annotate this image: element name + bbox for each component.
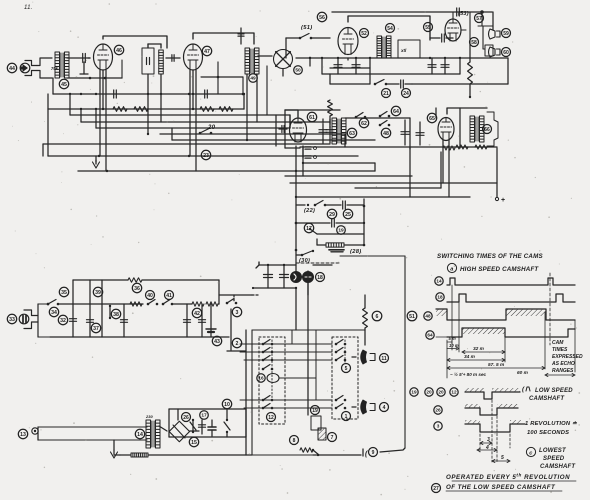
svg-text:26: 26 <box>435 408 441 413</box>
wire box top y256 <box>340 255 405 257</box>
resistor R11 <box>192 302 204 306</box>
node 18 waveform <box>436 293 444 301</box>
svg-text:42: 42 <box>194 311 200 317</box>
svg-text:61: 61 <box>309 115 315 121</box>
capacitor C1 <box>82 54 84 63</box>
wire stub x241 <box>240 28 242 44</box>
node 21 <box>382 89 391 98</box>
headphone jack 59 <box>489 29 496 39</box>
gap symbol <box>362 449 364 456</box>
svg-text:19: 19 <box>411 390 417 395</box>
svg-text:CAMSHAFT: CAMSHAFT <box>529 396 565 402</box>
wire row y304 <box>58 303 143 305</box>
svg-text:17: 17 <box>201 413 207 419</box>
resistor R12 <box>206 302 218 306</box>
node 12 <box>267 413 276 422</box>
node 13 <box>18 429 27 438</box>
transformer T45 <box>55 52 60 78</box>
wire y263 dotted <box>296 262 340 264</box>
node 23 <box>201 150 210 159</box>
waveform 18 <box>447 294 575 302</box>
wire right verticals strip1 <box>507 58 509 84</box>
capacitor C6 <box>400 80 402 88</box>
node 3 waveform <box>434 422 442 430</box>
dimension 10m <box>447 348 457 350</box>
svg-text:44: 44 <box>9 66 15 72</box>
wire box top y280 <box>73 279 128 281</box>
svg-text:34: 34 <box>51 310 57 316</box>
svg-text:39: 39 <box>95 290 101 296</box>
switch S51 <box>299 37 302 40</box>
wire box corner right <box>219 280 252 295</box>
node 64 <box>391 106 400 115</box>
wire lamps link <box>301 276 303 278</box>
svg-text:CAM: CAM <box>552 340 564 346</box>
svg-text:41: 41 <box>166 293 172 299</box>
wire long y144 <box>43 143 330 145</box>
wire V53 to jacks <box>469 12 471 44</box>
transformer T14 <box>146 420 151 448</box>
dimension 5m <box>447 341 452 343</box>
dim lines c <box>479 434 481 452</box>
wire strip1 stubs <box>285 38 287 58</box>
node 44 microphone input label <box>7 63 16 72</box>
svg-text:59: 59 <box>503 31 509 37</box>
svg-text:18: 18 <box>437 295 443 300</box>
svg-text:SWITCHING TIMES OF THE CAMS: SWITCHING TIMES OF THE CAMS <box>437 253 543 260</box>
wire y265 right <box>313 264 332 266</box>
wire bridge connections <box>159 426 167 431</box>
node 1 <box>342 412 351 421</box>
wire switch3 down <box>230 309 232 350</box>
capacitor C15 <box>87 319 94 321</box>
wire mains top <box>38 426 147 428</box>
switch S22 <box>314 204 317 207</box>
ground G2 <box>113 440 115 450</box>
svg-text:CAMSHAFT: CAMSHAFT <box>540 464 576 470</box>
capacitor C3 on y94 <box>204 90 206 98</box>
supply box top <box>169 408 246 410</box>
node 32 <box>58 315 67 324</box>
node 64 waveform <box>426 331 434 339</box>
wire V61 top <box>285 110 298 117</box>
node 65 <box>427 113 436 122</box>
battery B43 <box>210 304 212 337</box>
wire mains bottom <box>38 439 147 441</box>
node 11 <box>380 354 389 363</box>
waveform 26 <box>465 408 518 415</box>
node 50 <box>294 66 303 75</box>
wire top rail y12 <box>332 11 492 13</box>
svg-text:~ ½ 5ʹ+ 80 m sec: ~ ½ 5ʹ+ 80 m sec <box>450 371 487 377</box>
wire bottom to earpiece <box>38 336 50 338</box>
wire row y234 <box>310 229 317 234</box>
wire branch to relay box <box>227 350 246 352</box>
node 17 b <box>200 411 209 420</box>
node 3 <box>232 307 241 316</box>
svg-text:47: 47 <box>204 49 210 55</box>
svg-text:8: 8 <box>293 438 296 444</box>
waveform 64 <box>447 328 575 337</box>
wire mic to transformer T45 <box>37 58 52 66</box>
wire vertical x303 spine <box>302 146 304 176</box>
svg-text:11: 11 <box>381 356 387 362</box>
svg-text:LOW SPEED: LOW SPEED <box>535 388 573 394</box>
svg-text:3: 3 <box>236 310 239 316</box>
node 6 <box>372 311 382 321</box>
wire V47 plate to top rail right <box>193 33 254 44</box>
svg-text:38: 38 <box>113 312 119 318</box>
svg-text:21: 21 <box>383 91 389 97</box>
svg-text:63: 63 <box>349 131 355 137</box>
tube V47 <box>184 44 203 70</box>
switch S40 <box>147 303 150 306</box>
waveform a14 <box>447 278 575 285</box>
svg-text:50: 50 <box>295 68 301 74</box>
node 48 <box>381 128 390 137</box>
node 42 <box>192 308 201 317</box>
wire ladder steps <box>70 114 290 116</box>
wire V65 cathode drops <box>442 140 444 183</box>
wire bus y176 <box>285 175 412 177</box>
relay contacts right upper <box>335 343 338 346</box>
node 15 <box>189 437 198 446</box>
capacitor C7 pair <box>322 119 324 143</box>
relay box outline <box>252 329 365 331</box>
svg-text:34 m: 34 m <box>464 354 476 360</box>
resistor R10 <box>130 302 142 306</box>
capacitor C19 <box>201 420 203 434</box>
wire V46 cathodes down <box>99 70 101 156</box>
node 18 <box>316 273 325 282</box>
svg-text:EXPRESSED: EXPRESSED <box>552 354 583 360</box>
node 47 <box>202 46 211 55</box>
wire strip2 rails <box>285 109 340 111</box>
wire right block verticals <box>243 94 245 109</box>
capacitor C17 <box>186 304 188 337</box>
mic bracket <box>25 61 37 66</box>
capacitor C2 on y94 <box>113 90 115 98</box>
svg-text:62: 62 <box>361 121 367 127</box>
speaker box <box>487 112 498 146</box>
wire bus y183 <box>290 182 497 184</box>
electrolytic C20 <box>211 420 213 427</box>
svg-text:4: 4 <box>485 445 489 451</box>
node 19 row <box>410 388 418 396</box>
dimension 57.5m <box>447 367 545 369</box>
resistor R9 <box>128 278 142 282</box>
node 26 waveform <box>434 406 442 414</box>
wire V47 cathodes down <box>189 70 191 156</box>
svg-text:37: 37 <box>93 326 99 332</box>
capacitor C5 <box>441 34 443 42</box>
svg-text:20: 20 <box>207 125 216 131</box>
node 35 <box>59 287 68 296</box>
connector J13 <box>32 428 38 434</box>
switch S41 <box>162 303 165 306</box>
node 29 <box>327 209 336 218</box>
dimension 60m <box>545 374 575 376</box>
svg-text:26: 26 <box>183 415 189 421</box>
IF transformer can T2 <box>142 48 154 74</box>
relay armature dotted right <box>344 340 346 362</box>
wire misc mid <box>289 115 291 128</box>
node 10 <box>222 399 231 408</box>
node 49 <box>249 74 258 83</box>
node 24 <box>402 89 411 98</box>
underline <box>452 480 576 482</box>
svg-text:20: 20 <box>426 390 432 395</box>
wire cap bank bottom y288 <box>253 287 296 289</box>
resistor R8 <box>475 145 487 149</box>
switch S26 <box>192 420 194 432</box>
switch S34 <box>38 303 48 305</box>
node 46 <box>114 45 123 54</box>
svg-text:51: 51 <box>409 314 415 320</box>
output jack 11 <box>361 350 367 364</box>
node 25 <box>343 209 352 218</box>
node 33 <box>7 314 16 323</box>
dimension 32m <box>462 351 505 353</box>
svg-text:6: 6 <box>376 314 379 320</box>
transformer T54 <box>377 36 382 58</box>
earpiece connector 32 <box>19 314 29 324</box>
wire long y156 <box>48 155 358 157</box>
resistor bumps y148 <box>443 146 455 150</box>
wire box bottom right <box>313 454 361 456</box>
capacitor C10 <box>342 201 344 209</box>
wire rail right down <box>492 12 494 30</box>
svg-text:48: 48 <box>425 314 431 319</box>
wire matrix cross verticals <box>291 330 293 344</box>
capacitor C14 <box>70 318 77 320</box>
svg-text:5: 5 <box>501 455 504 461</box>
wire caps under rail <box>337 58 339 74</box>
svg-text:32 m: 32 m <box>473 346 485 352</box>
svg-text:65: 65 <box>429 116 435 122</box>
wire node46 drop <box>121 60 123 78</box>
microphone M1 <box>20 63 30 73</box>
waveform 64 lead <box>436 336 447 338</box>
node 20b row <box>437 388 445 396</box>
svg-text:43: 43 <box>214 339 220 345</box>
svg-text:54: 54 <box>387 26 393 32</box>
wire bus y197 <box>296 196 470 198</box>
node 16 <box>257 374 265 382</box>
svg-text:3: 3 <box>437 424 440 429</box>
node 9 <box>369 448 378 457</box>
svg-text:24: 24 <box>403 91 409 97</box>
svg-text:SPEED: SPEED <box>543 456 565 462</box>
node 40 <box>146 291 155 300</box>
resistor R7 <box>456 145 468 149</box>
svg-text:HIGH SPEED CAMSHAFT: HIGH SPEED CAMSHAFT <box>460 266 539 273</box>
wire cap bank top y265 <box>259 264 296 266</box>
node 45 <box>59 79 68 88</box>
wire T49 down <box>246 74 248 140</box>
node 51 waveform <box>407 311 417 321</box>
capacitor C12 <box>267 265 269 288</box>
svg-text:AS ECHO: AS ECHO <box>551 361 575 367</box>
svg-text:xtl: xtl <box>400 48 407 53</box>
svg-text:c: c <box>529 451 533 457</box>
svg-text:66: 66 <box>484 127 490 133</box>
right dashed relay box <box>332 337 358 419</box>
svg-text:18: 18 <box>317 275 323 281</box>
svg-text:1: 1 <box>345 414 348 420</box>
rotary switch S50 <box>274 50 293 69</box>
wire sub rails <box>330 67 370 69</box>
node 12 row <box>450 388 458 396</box>
svg-text:46: 46 <box>116 48 122 54</box>
node 57 <box>475 14 484 23</box>
switch S9 <box>313 450 319 455</box>
svg-text:(53): (53) <box>458 11 469 17</box>
node 61 <box>307 112 316 121</box>
wire T45 secondary to V46 grid <box>67 57 90 59</box>
node 56 <box>317 12 326 21</box>
node 2 <box>232 338 241 347</box>
svg-text:TIMES: TIMES <box>552 347 568 353</box>
wire outer box right <box>404 256 406 448</box>
resistor R13 <box>300 448 313 452</box>
capacitor C16 <box>123 304 125 337</box>
wire supply bottom <box>196 430 199 432</box>
node 48 waveform <box>424 312 432 320</box>
node c label <box>526 447 535 456</box>
waveform 48 <box>436 309 447 316</box>
node 34 <box>49 307 58 316</box>
svg-text:2: 2 <box>236 341 239 347</box>
transformer T66 <box>470 116 475 142</box>
svg-text:25: 25 <box>345 212 351 218</box>
node 17 <box>304 223 313 232</box>
svg-text:1 REVOLUTION ≐: 1 REVOLUTION ≐ <box>525 421 578 427</box>
wire control verticals <box>363 199 365 245</box>
node 4 <box>380 403 389 412</box>
node 63 <box>347 128 356 137</box>
svg-text:(28): (28) <box>350 249 362 255</box>
waveform b low speed <box>465 392 520 399</box>
svg-text:27: 27 <box>433 486 439 492</box>
node 55 <box>424 23 433 32</box>
reference verticals <box>451 285 453 350</box>
svg-text:(22): (22) <box>304 208 315 214</box>
wire vertical x296 spine <box>295 146 297 271</box>
svg-text:32: 32 <box>60 318 66 324</box>
svg-text:10: 10 <box>224 402 230 408</box>
left dashed relay box <box>259 337 285 424</box>
svg-text:33: 33 <box>9 317 15 323</box>
svg-text:20: 20 <box>438 390 444 395</box>
wire V47 right column <box>217 62 219 94</box>
node 19 <box>337 226 346 235</box>
svg-text:55: 55 <box>425 25 431 31</box>
node 66 <box>483 125 492 134</box>
dim 5 <box>492 460 510 462</box>
wire bus y147 <box>300 146 497 148</box>
junction dots left block <box>69 93 71 95</box>
capacitor C9 <box>419 122 421 145</box>
capacitor C18 <box>201 304 203 337</box>
resistor R2 <box>134 107 148 112</box>
switch S30 <box>302 251 312 255</box>
node 38 <box>111 309 120 318</box>
svg-text:12: 12 <box>268 415 274 421</box>
resistor R5 v <box>328 100 333 116</box>
capacitor C11 <box>331 219 333 227</box>
wire long y171 <box>78 170 375 172</box>
node 5 <box>342 364 351 373</box>
svg-text:16: 16 <box>258 376 264 381</box>
wire jack leads <box>352 356 356 358</box>
wire ladder step verticals <box>289 115 291 128</box>
wire box bottom y337 <box>50 336 229 338</box>
svg-text:64: 64 <box>393 109 399 115</box>
relay contacts right lower <box>335 399 338 402</box>
node 59 <box>502 29 511 38</box>
node 36 <box>132 283 141 292</box>
resistor R14 v <box>363 308 368 328</box>
svg-text:5: 5 <box>345 366 348 372</box>
dimension 34m <box>447 359 505 361</box>
dim 4 <box>477 449 497 451</box>
wire V52 top <box>348 16 430 40</box>
wire V61 grid cap <box>275 115 277 146</box>
node 52 <box>360 29 369 38</box>
lamp row wire <box>279 377 316 379</box>
wire V46 input <box>88 57 90 59</box>
lamp 16 <box>267 374 279 383</box>
tube V53 <box>445 19 461 41</box>
svg-text:+: + <box>501 197 505 204</box>
capacitor C4 on top rail <box>456 8 458 16</box>
svg-text:3: 3 <box>487 437 490 443</box>
svg-text:OPERATED EVERY 5th REVOLUTION: OPERATED EVERY 5th REVOLUTION <box>446 473 570 482</box>
transformer T62 <box>332 118 337 144</box>
node 39 <box>93 287 102 296</box>
wire main rail y58 top right <box>286 37 300 39</box>
relay coil 7 <box>318 428 326 440</box>
headphone jack 60 <box>485 45 493 56</box>
svg-text:OF THE LOW SPEED CAMSHAFT: OF THE LOW SPEED CAMSHAFT <box>446 484 556 491</box>
wire V65 top <box>447 108 487 114</box>
switch S21 <box>374 83 377 86</box>
svg-text:29: 29 <box>329 212 335 218</box>
svg-text:60 m: 60 m <box>517 370 529 376</box>
node 41 <box>165 291 174 300</box>
wire gnd to choke <box>114 454 120 456</box>
svg-text:70k: 70k <box>51 66 59 71</box>
tube V65 <box>438 118 454 141</box>
node 19 b <box>311 406 320 415</box>
node 60 <box>502 48 511 57</box>
wire row verticals box <box>72 280 74 337</box>
node 37 <box>91 323 100 332</box>
svg-text:(51): (51) <box>301 25 313 31</box>
node 8 <box>290 436 299 445</box>
svg-text:15: 15 <box>191 440 197 446</box>
ground G1 <box>95 156 97 162</box>
tube V61 <box>290 118 307 142</box>
relay contacts left upper <box>262 343 265 346</box>
oscillator box <box>398 40 420 58</box>
svg-text:a: a <box>450 267 453 273</box>
node 54 <box>386 24 395 33</box>
svg-text:5 m: 5 m <box>449 336 456 341</box>
svg-text:57: 57 <box>476 16 482 22</box>
svg-text:57. 5 m: 57. 5 m <box>488 362 505 368</box>
